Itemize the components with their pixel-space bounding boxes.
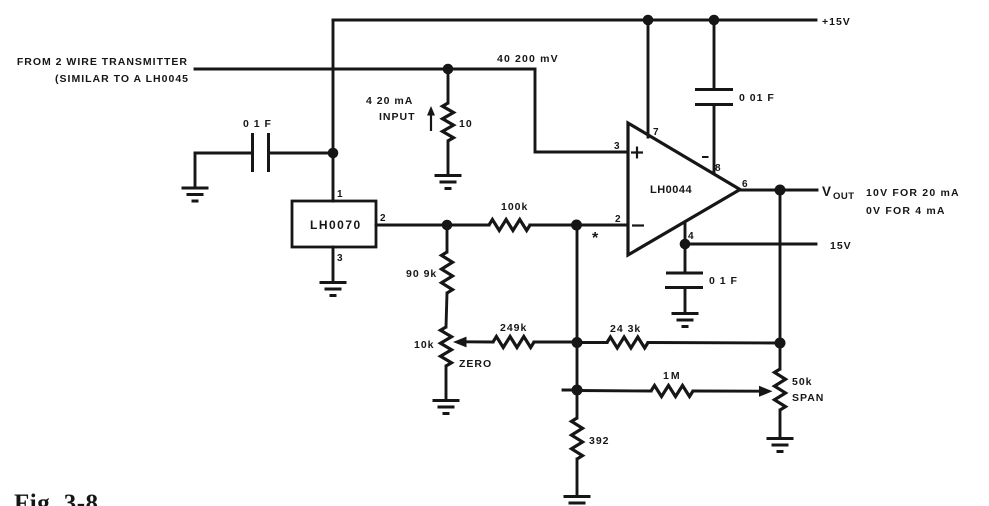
IC U2 LH0070 box: [292, 201, 376, 247]
svg-text:FROM 2 WIRE TRANSMITTER: FROM 2 WIRE TRANSMITTER: [17, 56, 188, 68]
capacitor C2 0.01uF plates: [695, 88, 733, 91]
wire 10 ohm to ground: [447, 141, 450, 174]
wire LH0070 pin 3 to ground: [332, 247, 335, 281]
svg-text:*: *: [592, 230, 599, 247]
resistor 24.3k: [607, 337, 648, 348]
wire 100k to minus input: [530, 224, 628, 227]
junction node on top rail at C2: [709, 15, 720, 26]
wire 90.9k to 10k pot: [446, 293, 447, 327]
resistor 392: [572, 418, 583, 459]
arrowhead zero wiper: [453, 337, 467, 348]
svg-text:3: 3: [337, 253, 343, 264]
svg-text:+15V: +15V: [822, 16, 851, 28]
svg-text:90 9k: 90 9k: [406, 268, 437, 280]
svg-text:0 1 F: 0 1 F: [243, 118, 272, 130]
ground C1: [182, 188, 209, 201]
svg-text:(SIMILAR TO A LH0045: (SIMILAR TO A LH0045: [55, 73, 189, 85]
potentiometer 50k SPAN: [775, 369, 786, 410]
svg-text:0 1 F: 0 1 F: [709, 275, 738, 287]
junction node output: [775, 185, 786, 196]
ground 10k pot: [433, 401, 460, 414]
svg-text:1M: 1M: [663, 370, 682, 382]
ground 392: [564, 497, 591, 504]
op-amp plus sign: [631, 147, 643, 159]
wire 249k to summing node: [534, 341, 577, 344]
ground 50k pot: [767, 439, 794, 452]
svg-text:8: 8: [715, 163, 721, 174]
wire 10k pot to ground: [445, 366, 448, 399]
junction node transmitter / 10 ohm: [443, 64, 454, 75]
svg-text:2: 2: [615, 214, 621, 225]
svg-text:392: 392: [589, 435, 610, 447]
resistor 249k: [493, 337, 534, 348]
svg-text:1: 1: [337, 189, 343, 200]
svg-text:SPAN: SPAN: [792, 392, 824, 404]
arrowhead input current: [427, 106, 435, 116]
wire pin4 node to C3: [684, 244, 687, 272]
resistor 100k: [489, 220, 530, 231]
svg-text:24 3k: 24 3k: [610, 323, 641, 335]
wire rail to C2 top plate: [713, 20, 716, 89]
svg-text:LH0044: LH0044: [650, 184, 693, 196]
wire C2 bottom plate to pin 8: [713, 105, 716, 172]
wire pin 4 stub: [684, 222, 687, 244]
wire 1M node to resistor: [577, 389, 651, 392]
svg-text:ZERO: ZERO: [459, 358, 492, 370]
wire right node down to 50k pot: [779, 343, 782, 369]
capacitor C1 0.1uF plates: [251, 133, 254, 172]
svg-text:100k: 100k: [501, 201, 528, 213]
capacitor C3 0.1uF plates: [666, 272, 703, 275]
junction node LH0070 pin2 / 90.9k: [442, 220, 453, 231]
svg-text:249k: 249k: [500, 322, 527, 334]
wire +15V drop to LH0070 pin 1: [332, 20, 335, 201]
op-amp U1 LH0044 triangle: [628, 123, 740, 255]
wire C1 ground stub: [194, 153, 197, 186]
svg-text:7: 7: [653, 127, 659, 138]
svg-text:10V FOR 20 mA: 10V FOR 20 mA: [866, 187, 960, 199]
wire output pin 6: [740, 189, 817, 192]
wire +15V top rail: [333, 19, 816, 22]
wire 1M to span wiper: [693, 390, 761, 393]
potentiometer 10k ZERO: [441, 327, 452, 366]
junction node C1 / +15V drop: [328, 148, 339, 159]
dash near pin 8: [702, 156, 709, 158]
ground 10 ohm: [435, 176, 462, 189]
wire zero wiper to 249k: [464, 340, 493, 343]
ground LH0070 pin 3: [320, 283, 347, 296]
svg-text:40 200 mV: 40 200 mV: [497, 53, 559, 65]
svg-text:50k: 50k: [792, 376, 813, 388]
svg-text:Fig. 3-8: Fig. 3-8: [14, 490, 99, 506]
svg-text:0V FOR 4 mA: 0V FOR 4 mA: [866, 205, 946, 217]
wire C1 left lead: [195, 152, 252, 155]
svg-text:4 20 mA: 4 20 mA: [366, 95, 413, 107]
svg-text:2: 2: [380, 213, 386, 224]
resistor 90.9k: [442, 252, 453, 293]
svg-text:15V: 15V: [830, 240, 852, 252]
svg-text:10: 10: [459, 118, 473, 130]
wire stub left of 1M node: [563, 389, 577, 392]
wire pin 7 drop from rail: [647, 20, 650, 137]
wire minus input vertical: [576, 225, 579, 390]
junction node feedback / 50k: [775, 338, 786, 349]
junction node 1M / 392: [572, 385, 583, 396]
svg-text:10k: 10k: [414, 339, 435, 351]
wire C1 right lead: [269, 152, 333, 155]
ground C3: [672, 314, 699, 327]
arrow input current shaft: [430, 112, 432, 131]
wire -15V rail from pin 4: [685, 243, 816, 246]
wire from transmitter input: [195, 68, 535, 71]
wire node down to 90.9k: [446, 225, 449, 252]
wire summing node to 24.3k: [577, 341, 607, 344]
junction node on top rail at pin7: [643, 15, 654, 26]
svg-text:LH0070: LH0070: [310, 218, 362, 232]
arrowhead span wiper: [759, 386, 773, 397]
wire 10 ohm branch top: [447, 69, 450, 103]
junction node minus input: [571, 220, 582, 231]
wire 24.3k to right node: [648, 341, 780, 344]
wire 392 to ground: [576, 459, 579, 495]
junction node 249k / 24.3k: [572, 337, 583, 348]
op-amp minus sign: [632, 224, 644, 226]
svg-text:3: 3: [614, 141, 620, 152]
svg-text:4: 4: [688, 231, 694, 242]
resistor 10: [443, 103, 454, 141]
svg-text:INPUT: INPUT: [379, 111, 416, 123]
wire 40-200mV corner down to + input: [535, 69, 628, 152]
wire feedback vertical from output: [779, 190, 782, 343]
wire node to 100k: [447, 224, 489, 227]
junction node pin 4 / -15V: [680, 239, 691, 250]
svg-text:OUT: OUT: [833, 191, 855, 202]
svg-text:0 01 F: 0 01 F: [739, 92, 775, 104]
svg-text:6: 6: [742, 179, 748, 190]
wire 50k pot to ground: [779, 410, 782, 437]
svg-text:V: V: [822, 184, 831, 199]
wire 392 node down: [576, 390, 579, 418]
wire LH0070 pin 2 to node: [376, 224, 447, 227]
resistor 1M: [651, 386, 693, 397]
wire C3 to ground: [684, 288, 687, 312]
